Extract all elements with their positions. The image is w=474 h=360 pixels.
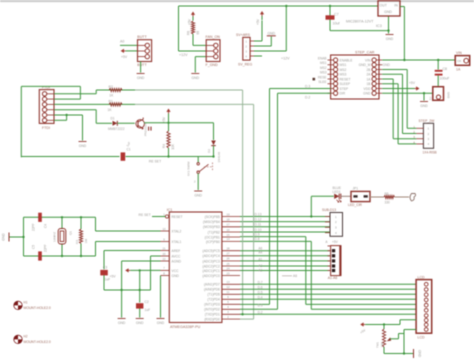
svg-text:RESET: RESET	[172, 215, 183, 219]
svg-text:1N4148: 1N4148	[217, 152, 221, 163]
svg-text:AGND: AGND	[172, 259, 182, 263]
svg-text:A1: A1	[258, 258, 262, 262]
svg-text:D.11: D.11	[255, 223, 262, 227]
svg-text:(INT0)PD2: (INT0)PD2	[204, 308, 220, 312]
svg-text:Q1: Q1	[69, 231, 73, 235]
svg-text:GND: GND	[118, 321, 126, 325]
svg-text:SV+ARS: SV+ARS	[236, 33, 251, 37]
svg-text:MIC2807A-12VT: MIC2807A-12VT	[346, 20, 374, 24]
svg-text:A2: A2	[258, 269, 262, 273]
svg-text:D.13: D.13	[255, 212, 262, 216]
svg-text:(T1)PB2: (T1)PB2	[208, 230, 220, 234]
svg-text:6X3 SWIM: 6X3 SWIM	[186, 161, 190, 176]
svg-text:15: 15	[226, 233, 230, 237]
svg-text:GND: GND	[194, 194, 202, 198]
svg-text:10uf: 10uf	[333, 22, 340, 26]
svg-text:21: 21	[162, 246, 166, 250]
svg-text:(AIN1)PD7: (AIN1)PD7	[204, 283, 220, 287]
svg-text:C8: C8	[443, 67, 448, 71]
svg-text:A6: A6	[293, 274, 297, 278]
svg-text:RE SET: RE SET	[149, 160, 161, 164]
svg-text:GND: GND	[418, 350, 422, 358]
svg-text:(OC1)PB1: (OC1)PB1	[205, 235, 220, 239]
svg-text:1X4-RISB: 1X4-RISB	[423, 151, 437, 155]
svg-text:JP1: JP1	[353, 187, 359, 191]
svg-text:10: 10	[162, 227, 166, 231]
svg-text:R1: R1	[109, 99, 113, 103]
svg-text:(ADC5)PC5: (ADC5)PC5	[202, 249, 220, 253]
svg-text:FTDI: FTDI	[42, 126, 50, 130]
svg-text:C5: C5	[32, 245, 36, 249]
svg-text:17: 17	[226, 223, 230, 227]
svg-text:(TXD)PD1: (TXD)PD1	[205, 313, 220, 317]
svg-text:AVCC: AVCC	[172, 254, 182, 258]
svg-text:+5V: +5V	[409, 81, 416, 85]
svg-text:D.9: D.9	[255, 232, 260, 236]
svg-text:SLEE: SLEE	[318, 80, 326, 84]
svg-text:GND: GND	[192, 76, 200, 80]
svg-text:A3: A3	[258, 264, 262, 268]
svg-text:19: 19	[226, 212, 230, 216]
svg-text:BUTT: BUTT	[137, 63, 147, 67]
svg-text:A1-A6: A1-A6	[328, 276, 338, 280]
svg-text:(INT1)PD3: (INT1)PD3	[204, 303, 220, 307]
svg-text:ENAB: ENAB	[318, 56, 327, 60]
svg-text:OUT: OUT	[380, 4, 388, 8]
svg-text:SV_REG: SV_REG	[238, 63, 252, 67]
svg-text:D.12: D.12	[255, 217, 262, 221]
svg-text:+12V: +12V	[281, 57, 290, 61]
svg-text:1A: 1A	[456, 68, 461, 72]
svg-text:D.10: D.10	[255, 228, 262, 232]
svg-text:H2: H2	[24, 335, 28, 339]
svg-text:(ADC1)PC1: (ADC1)PC1	[202, 269, 220, 273]
svg-text:H1: H1	[24, 301, 28, 305]
svg-text:R5: R5	[385, 192, 389, 196]
svg-text:D.7: D.7	[258, 280, 263, 284]
svg-text:14: 14	[226, 237, 230, 241]
svg-text:GND: GND	[383, 63, 391, 67]
svg-text:1K: 1K	[109, 94, 114, 98]
svg-text:GND: GND	[172, 274, 180, 278]
svg-text:SUB-D13: SUB-D13	[322, 208, 336, 212]
svg-text:VCC: VCC	[172, 269, 180, 273]
svg-text:IN: IN	[394, 4, 398, 8]
svg-text:D.8: D.8	[255, 237, 260, 241]
svg-text:D.3: D.3	[305, 84, 310, 88]
svg-text:26: 26	[226, 257, 230, 261]
svg-text:+5V: +5V	[162, 116, 166, 123]
svg-text:GND: GND	[363, 92, 371, 96]
svg-text:22PF: 22PF	[44, 244, 48, 252]
svg-text:RESE: RESE	[318, 75, 327, 79]
svg-text:BUTT: BUTT	[137, 35, 147, 39]
svg-text:(ICP)PB0: (ICP)PB0	[206, 240, 220, 244]
svg-text:STEP: STEP	[340, 87, 349, 91]
svg-text:LCD: LCD	[418, 336, 425, 340]
svg-text:25: 25	[226, 262, 230, 266]
svg-text:22PF: 22PF	[32, 223, 36, 231]
svg-text:OK: OK	[457, 59, 461, 63]
svg-text:(RXD)PD0: (RXD)PD0	[204, 318, 220, 322]
svg-text:A0: A0	[120, 39, 124, 43]
svg-text:D1: D1	[111, 117, 115, 121]
svg-text:VIN: VIN	[456, 51, 462, 55]
svg-text:D.6: D.6	[258, 285, 263, 289]
svg-text:+5V: +5V	[332, 240, 339, 244]
svg-text:1M: 1M	[84, 239, 88, 244]
svg-text:LED_CIR: LED_CIR	[348, 203, 363, 207]
svg-text:24: 24	[226, 266, 230, 270]
svg-text:STEP_2W: STEP_2W	[419, 119, 436, 123]
svg-text:AREF: AREF	[172, 249, 181, 253]
svg-text:D.2: D.2	[258, 310, 263, 314]
svg-text:MOUNT-HOLE2.0: MOUNT-HOLE2.0	[24, 340, 51, 344]
svg-text:68: 68	[196, 31, 200, 35]
svg-text:13: 13	[226, 280, 230, 284]
svg-text:(SCK)PB5: (SCK)PB5	[205, 215, 220, 219]
svg-text:(ADC4)PC4: (ADC4)PC4	[202, 254, 220, 258]
svg-text:MS2: MS2	[340, 68, 347, 72]
svg-text:LED1: LED1	[333, 190, 341, 194]
svg-text:ENABLE: ENABLE	[340, 58, 354, 62]
svg-text:16: 16	[226, 228, 230, 232]
svg-text:GND: GND	[137, 76, 145, 80]
svg-text:+12V: +12V	[179, 53, 188, 57]
svg-text:C1: C1	[127, 148, 131, 152]
svg-text:12: 12	[226, 285, 230, 289]
svg-text:+5V: +5V	[121, 55, 128, 59]
svg-text:R2: R2	[109, 85, 113, 89]
svg-text:R6: R6	[187, 31, 191, 35]
svg-text:C7: C7	[334, 13, 339, 17]
svg-text:R4: R4	[162, 144, 166, 148]
svg-text:28: 28	[226, 247, 230, 251]
svg-text:TM1: TM1	[376, 342, 380, 348]
svg-text:A4: A4	[258, 251, 262, 255]
svg-text:F_GND: F_GND	[206, 63, 219, 67]
svg-text:MS3: MS3	[320, 71, 327, 75]
svg-text:DIR: DIR	[340, 92, 346, 96]
svg-text:(ADC2)PC2: (ADC2)PC2	[202, 264, 220, 268]
svg-text:1uF: 1uF	[145, 308, 151, 312]
svg-text:18: 18	[226, 217, 230, 221]
svg-text:C2: C2	[145, 300, 149, 304]
svg-text:IC1: IC1	[167, 208, 173, 212]
svg-text:PN2222A: PN2222A	[144, 123, 148, 136]
svg-text:(T2)PD4: (T2)PD4	[207, 298, 220, 302]
svg-text:GND: GND	[136, 321, 144, 325]
svg-text:MS3: MS3	[340, 73, 347, 77]
svg-text:MMBT2222: MMBT2222	[108, 127, 125, 131]
svg-text:(ADC0)PC0: (ADC0)PC0	[202, 274, 220, 278]
svg-text:VIN: VIN	[365, 58, 371, 62]
svg-text:11: 11	[227, 290, 230, 294]
svg-text:10K: 10K	[171, 143, 175, 150]
svg-text:D2: D2	[207, 149, 211, 153]
svg-text:D.3: D.3	[258, 303, 263, 307]
svg-text:23: 23	[226, 271, 230, 275]
svg-text:22: 22	[162, 257, 166, 261]
svg-text:D.5: D.5	[258, 290, 263, 294]
svg-text:GND: GND	[386, 37, 394, 41]
svg-text:20: 20	[162, 252, 166, 256]
svg-text:IC3: IC3	[376, 24, 382, 28]
svg-text:C4: C4	[44, 224, 48, 228]
svg-text:C3: C3	[103, 266, 107, 270]
svg-text:FAN_ON: FAN_ON	[206, 35, 221, 39]
svg-text:27: 27	[226, 252, 230, 256]
svg-text:GND: GND	[384, 10, 392, 14]
svg-text:MS1: MS1	[320, 61, 327, 65]
svg-text:10K: 10K	[380, 342, 384, 347]
svg-text:R3: R3	[75, 240, 79, 244]
svg-text:16MHZ: 16MHZ	[53, 232, 57, 242]
svg-text:MS1: MS1	[340, 63, 347, 67]
svg-text:SLEEP: SLEEP	[340, 82, 351, 86]
svg-text:+5V: +5V	[256, 18, 260, 25]
svg-text:GND: GND	[447, 92, 451, 98]
svg-text:GND: GND	[79, 144, 87, 148]
svg-text:(MISO)PB4: (MISO)PB4	[203, 220, 220, 224]
svg-text:GND: GND	[157, 321, 165, 325]
svg-text:(ADC3)PC3: (ADC3)PC3	[202, 259, 220, 263]
svg-text:MS2: MS2	[320, 66, 327, 70]
svg-text:(MOSI)PB3: (MOSI)PB3	[203, 225, 220, 229]
svg-text:ATMEGA328P-PU: ATMEGA328P-PU	[170, 325, 201, 329]
svg-text:(T1)PD5: (T1)PD5	[207, 293, 220, 297]
svg-text:RESET: RESET	[340, 77, 351, 81]
svg-text:D.2: D.2	[305, 95, 310, 99]
svg-text:VDD: VDD	[364, 87, 372, 91]
svg-text:A6: A6	[258, 246, 262, 250]
svg-text:100uF: 100uF	[440, 77, 450, 81]
svg-text:GND: GND	[420, 104, 428, 108]
svg-text:(AIN0)PD6: (AIN0)PD6	[204, 288, 220, 292]
svg-text:XTAL1: XTAL1	[172, 240, 182, 244]
svg-text:1K: 1K	[108, 108, 113, 112]
svg-text:GND: GND	[2, 233, 6, 241]
svg-text:MOUNT-HOLE2.0: MOUNT-HOLE2.0	[24, 306, 51, 310]
svg-text:D.4: D.4	[258, 295, 263, 299]
svg-text:GND_M: GND_M	[359, 63, 371, 67]
svg-text:+5V: +5V	[110, 275, 117, 279]
svg-text:XTAL2: XTAL2	[172, 229, 182, 233]
svg-text:STEP_CAR: STEP_CAR	[355, 51, 375, 55]
svg-text:GND: GND	[268, 32, 276, 36]
svg-text:330: 330	[385, 201, 391, 205]
svg-text:RE SET: RE SET	[139, 213, 151, 217]
